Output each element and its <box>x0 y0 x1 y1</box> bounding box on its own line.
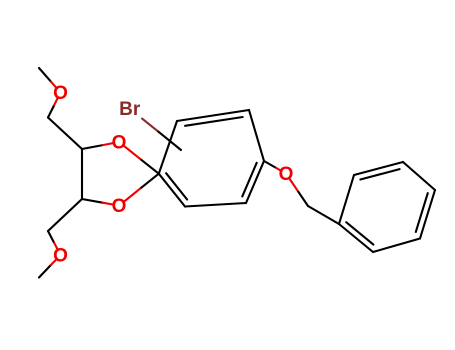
bond CH3-O of bottom methoxy <box>39 259 57 278</box>
phenyl edge C1'-C2' <box>339 175 354 224</box>
atom O (benzyloxy oxygen) <box>279 164 294 185</box>
bond C4-C5 (dioxolane left edge) <box>81 149 83 199</box>
bond C4-O1 (dioxolane) <box>82 143 114 149</box>
benzene edge C3-C4 <box>249 110 264 161</box>
bond O-CH2 of top methoxymethyl arm <box>48 97 58 117</box>
svg-text:O: O <box>112 196 127 217</box>
bond Br substituent <box>142 119 181 150</box>
benzene edge C2-C3 (double) <box>177 110 249 126</box>
bond CH2-C4 (top arm to dioxolane) <box>48 118 82 150</box>
phenyl edge C4'-C5' (double) <box>416 190 435 239</box>
bond O-CH2 (benzyl) <box>289 178 308 206</box>
svg-text:O: O <box>279 164 294 185</box>
svg-text:O: O <box>53 246 68 267</box>
svg-text:Br: Br <box>119 99 141 120</box>
svg-text:O: O <box>53 83 68 104</box>
phenyl edge C2'-C3' (double) <box>354 162 403 180</box>
atom O (bottom methoxy oxygen) <box>53 246 68 267</box>
bond O3-C2 (dioxolane) <box>123 174 159 203</box>
bond C5-O3 (dioxolane) <box>82 199 114 205</box>
bond O-CH2 of bottom methoxymethyl arm <box>48 231 58 250</box>
benzene edge C4-C5 (double) <box>242 161 264 203</box>
bond O1-C2 (dioxolane) <box>123 145 159 173</box>
bond CH3-O of top methoxy <box>39 68 57 88</box>
benzene edge C6-C1 (double) <box>159 173 187 206</box>
phenyl edge C6'-C1' (double) <box>339 222 373 252</box>
phenyl edge C5'-C6' <box>373 239 420 253</box>
atom O3 (dioxolane oxygen, lower) <box>112 196 127 217</box>
atom O1 (dioxolane oxygen, upper) <box>112 133 127 154</box>
benzene edge C1-C2 <box>159 121 177 174</box>
bond aryl-O (benzyloxy) <box>264 161 281 171</box>
atom Br (bromine substituent) <box>119 99 141 120</box>
atom O (top methoxy oxygen) <box>53 83 68 104</box>
bond CH2-C5 (bottom arm to dioxolane) <box>48 199 82 231</box>
svg-text:O: O <box>112 133 127 154</box>
bond CH2-phenyl <box>308 206 339 224</box>
phenyl edge C3'-C4' <box>403 162 435 190</box>
benzene edge C5-C6 <box>185 203 246 207</box>
